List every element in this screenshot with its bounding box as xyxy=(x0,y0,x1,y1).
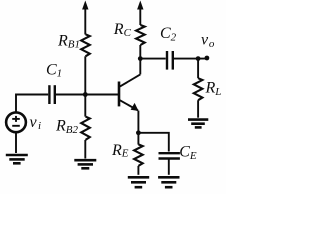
wire RE bottom xyxy=(137,166,139,175)
wire RB1 bottom to base node xyxy=(84,56,86,94)
wire vi top up and right to C1 xyxy=(16,95,48,112)
transistor Q1 (NPN) xyxy=(119,74,140,111)
wire emitter down to RE node xyxy=(137,111,139,133)
wire RE node to RE xyxy=(137,133,139,145)
wire collector up to RC node xyxy=(139,59,141,75)
ground (RL) xyxy=(188,120,208,128)
node output junction xyxy=(196,56,201,61)
wire vi bottom xyxy=(15,133,17,153)
wire collector node to C2 xyxy=(140,58,165,60)
resistor RL xyxy=(194,78,203,100)
wire emitter node right and down to CE xyxy=(138,133,168,152)
ground (vi) xyxy=(6,155,28,163)
wire output node down to RL xyxy=(197,59,199,79)
wire RL bottom xyxy=(197,100,199,118)
ground (RE) xyxy=(128,177,149,187)
capacitor C1 xyxy=(49,85,54,104)
ground (CE) xyxy=(158,177,179,187)
VCC supply arrow (above RB1) xyxy=(82,1,88,35)
wire C1 to transistor base xyxy=(56,94,118,96)
wire RC bottom to collector node xyxy=(139,45,141,59)
resistor RE xyxy=(134,144,143,166)
capacitor C2 xyxy=(167,51,173,70)
wire CE bottom xyxy=(168,159,170,175)
voltage source vi xyxy=(6,112,26,132)
node collector junction xyxy=(138,56,143,61)
node emitter junction xyxy=(136,130,141,135)
node base/RB junction xyxy=(83,92,88,97)
ground (RB2) xyxy=(74,160,96,168)
resistor RB2 xyxy=(81,95,90,159)
node vo terminal xyxy=(205,56,210,61)
resistor RC xyxy=(136,25,145,45)
VCC supply arrow (above RC) xyxy=(137,1,143,26)
wire C2 to output node xyxy=(174,58,207,60)
resistor RB1 xyxy=(81,34,90,56)
capacitor CE xyxy=(159,153,180,158)
